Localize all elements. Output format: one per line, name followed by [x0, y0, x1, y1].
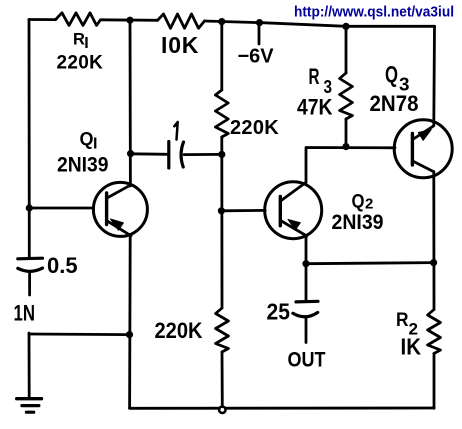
svg-text:220K: 220K — [155, 318, 204, 343]
resistor R3 zigzag — [340, 73, 353, 119]
capacitor 25 bottom curved plate — [293, 312, 318, 316]
wire middle branch mid — [220, 137, 223, 308]
svg-text:I: I — [93, 135, 97, 152]
wire top rail left segment — [29, 18, 56, 21]
svg-text:Q: Q — [352, 190, 365, 212]
wire Q2 emitter to right rail — [306, 263, 434, 264]
transistor Q2 — [265, 182, 322, 239]
svg-text:I: I — [84, 35, 88, 52]
transistor Q3 — [394, 120, 452, 178]
svg-text:R: R — [309, 64, 320, 89]
wire -6V stub — [258, 23, 261, 44]
svg-text:I0K: I0K — [161, 32, 199, 58]
wire OUT stub — [305, 318, 308, 343]
wire left rail vertical — [28, 20, 31, 258]
resistor 220K bottom zigzag — [216, 308, 229, 352]
wire Q2 emitter vertical — [305, 236, 308, 264]
capacitor 0.5 top plate — [18, 257, 43, 261]
svg-text:R: R — [73, 30, 85, 48]
svg-text:47K: 47K — [297, 95, 333, 120]
wire middle branch bottom — [221, 352, 224, 406]
wire right rail bottom — [433, 354, 436, 409]
ground bar 1 — [17, 397, 42, 400]
svg-text:http://www.qsl.net/va3iul: http://www.qsl.net/va3iul — [294, 5, 454, 21]
junction dot top rail / Q1 collector — [126, 17, 133, 24]
junction dot top rail / middle branch — [218, 18, 225, 25]
junction dot cap1 left — [127, 150, 134, 157]
wire cap1 left segment — [131, 152, 168, 155]
wire right rail top — [432, 26, 436, 124]
wire bottom rail — [130, 407, 435, 410]
capacitor 0.5 bottom curved plate — [18, 268, 43, 271]
wire IN/ground horizontal — [29, 333, 130, 336]
svg-text:220K: 220K — [57, 53, 104, 74]
junction dot cap1 right — [218, 151, 225, 158]
junction dot right rail / emitter wire — [430, 259, 437, 266]
value 1 for capacitor — [174, 122, 177, 140]
transistor Q1 — [93, 182, 147, 236]
junction dot IN wire / Q1 emitter — [126, 331, 133, 338]
label R1 — [73, 30, 89, 51]
label R2 — [396, 309, 418, 338]
capacitor 25 top plate — [296, 300, 318, 304]
svg-text:Q: Q — [80, 129, 94, 149]
junction dot top rail / R3 branch — [342, 23, 349, 30]
wire R3 top — [345, 26, 348, 73]
ground bar 3 — [26, 411, 33, 414]
node open junction bottom rail — [219, 407, 225, 413]
junction dot R3 bottom / Q3 base wire — [342, 143, 349, 150]
wire Q2 collector to Q3 base — [306, 148, 395, 183]
label Q2 — [352, 190, 374, 212]
wire Q1 collector vertical — [129, 20, 132, 186]
svg-text:1N: 1N — [14, 300, 36, 325]
wire Q2 base — [221, 209, 265, 212]
svg-text:2NI39: 2NI39 — [57, 153, 109, 177]
ground bar 2 — [22, 404, 39, 407]
svg-text:0.5: 0.5 — [47, 253, 78, 278]
resistor 10K zigzag — [158, 14, 205, 28]
wire R3 bottom — [345, 119, 348, 147]
svg-text:2NI39: 2NI39 — [332, 211, 384, 234]
junction dot top rail / -6V stub — [256, 19, 263, 26]
resistor R2 zigzag — [428, 310, 441, 354]
label Q3 — [385, 61, 410, 95]
svg-text:25: 25 — [267, 299, 291, 325]
label Q1 — [80, 129, 98, 153]
wire top rail middle segment — [101, 18, 158, 21]
wire right rail middle — [432, 172, 435, 310]
junction dot Q2 emitter / cap25 — [302, 260, 309, 267]
wire cap25 top lead — [305, 264, 308, 302]
wire Q1 emitter vertical — [128, 235, 131, 409]
svg-text:IK: IK — [401, 334, 422, 360]
wire top rail right segment — [205, 21, 435, 26]
wire ground branch vertical — [28, 333, 31, 399]
wire cap1 right segment — [184, 153, 222, 156]
capacitor 1 right curved plate — [181, 142, 183, 167]
label R3 — [309, 64, 333, 97]
junction dot Q2 base / middle branch — [218, 207, 225, 214]
svg-text:Q: Q — [385, 61, 398, 87]
capacitor 1 left plate — [167, 142, 170, 169]
wire Q1 base — [29, 207, 93, 210]
svg-text:OUT: OUT — [288, 348, 326, 372]
svg-text:220K: 220K — [230, 117, 279, 139]
svg-text:R: R — [396, 309, 409, 331]
wire IN stub — [28, 272, 31, 296]
resistor 220K middle zigzag — [215, 90, 228, 137]
wire middle branch top — [220, 22, 223, 90]
svg-text:−6V: −6V — [238, 46, 275, 68]
svg-text:2N78: 2N78 — [370, 91, 419, 116]
junction dot left rail / Q1 base — [26, 204, 33, 211]
resistor R1 zigzag — [56, 13, 101, 26]
